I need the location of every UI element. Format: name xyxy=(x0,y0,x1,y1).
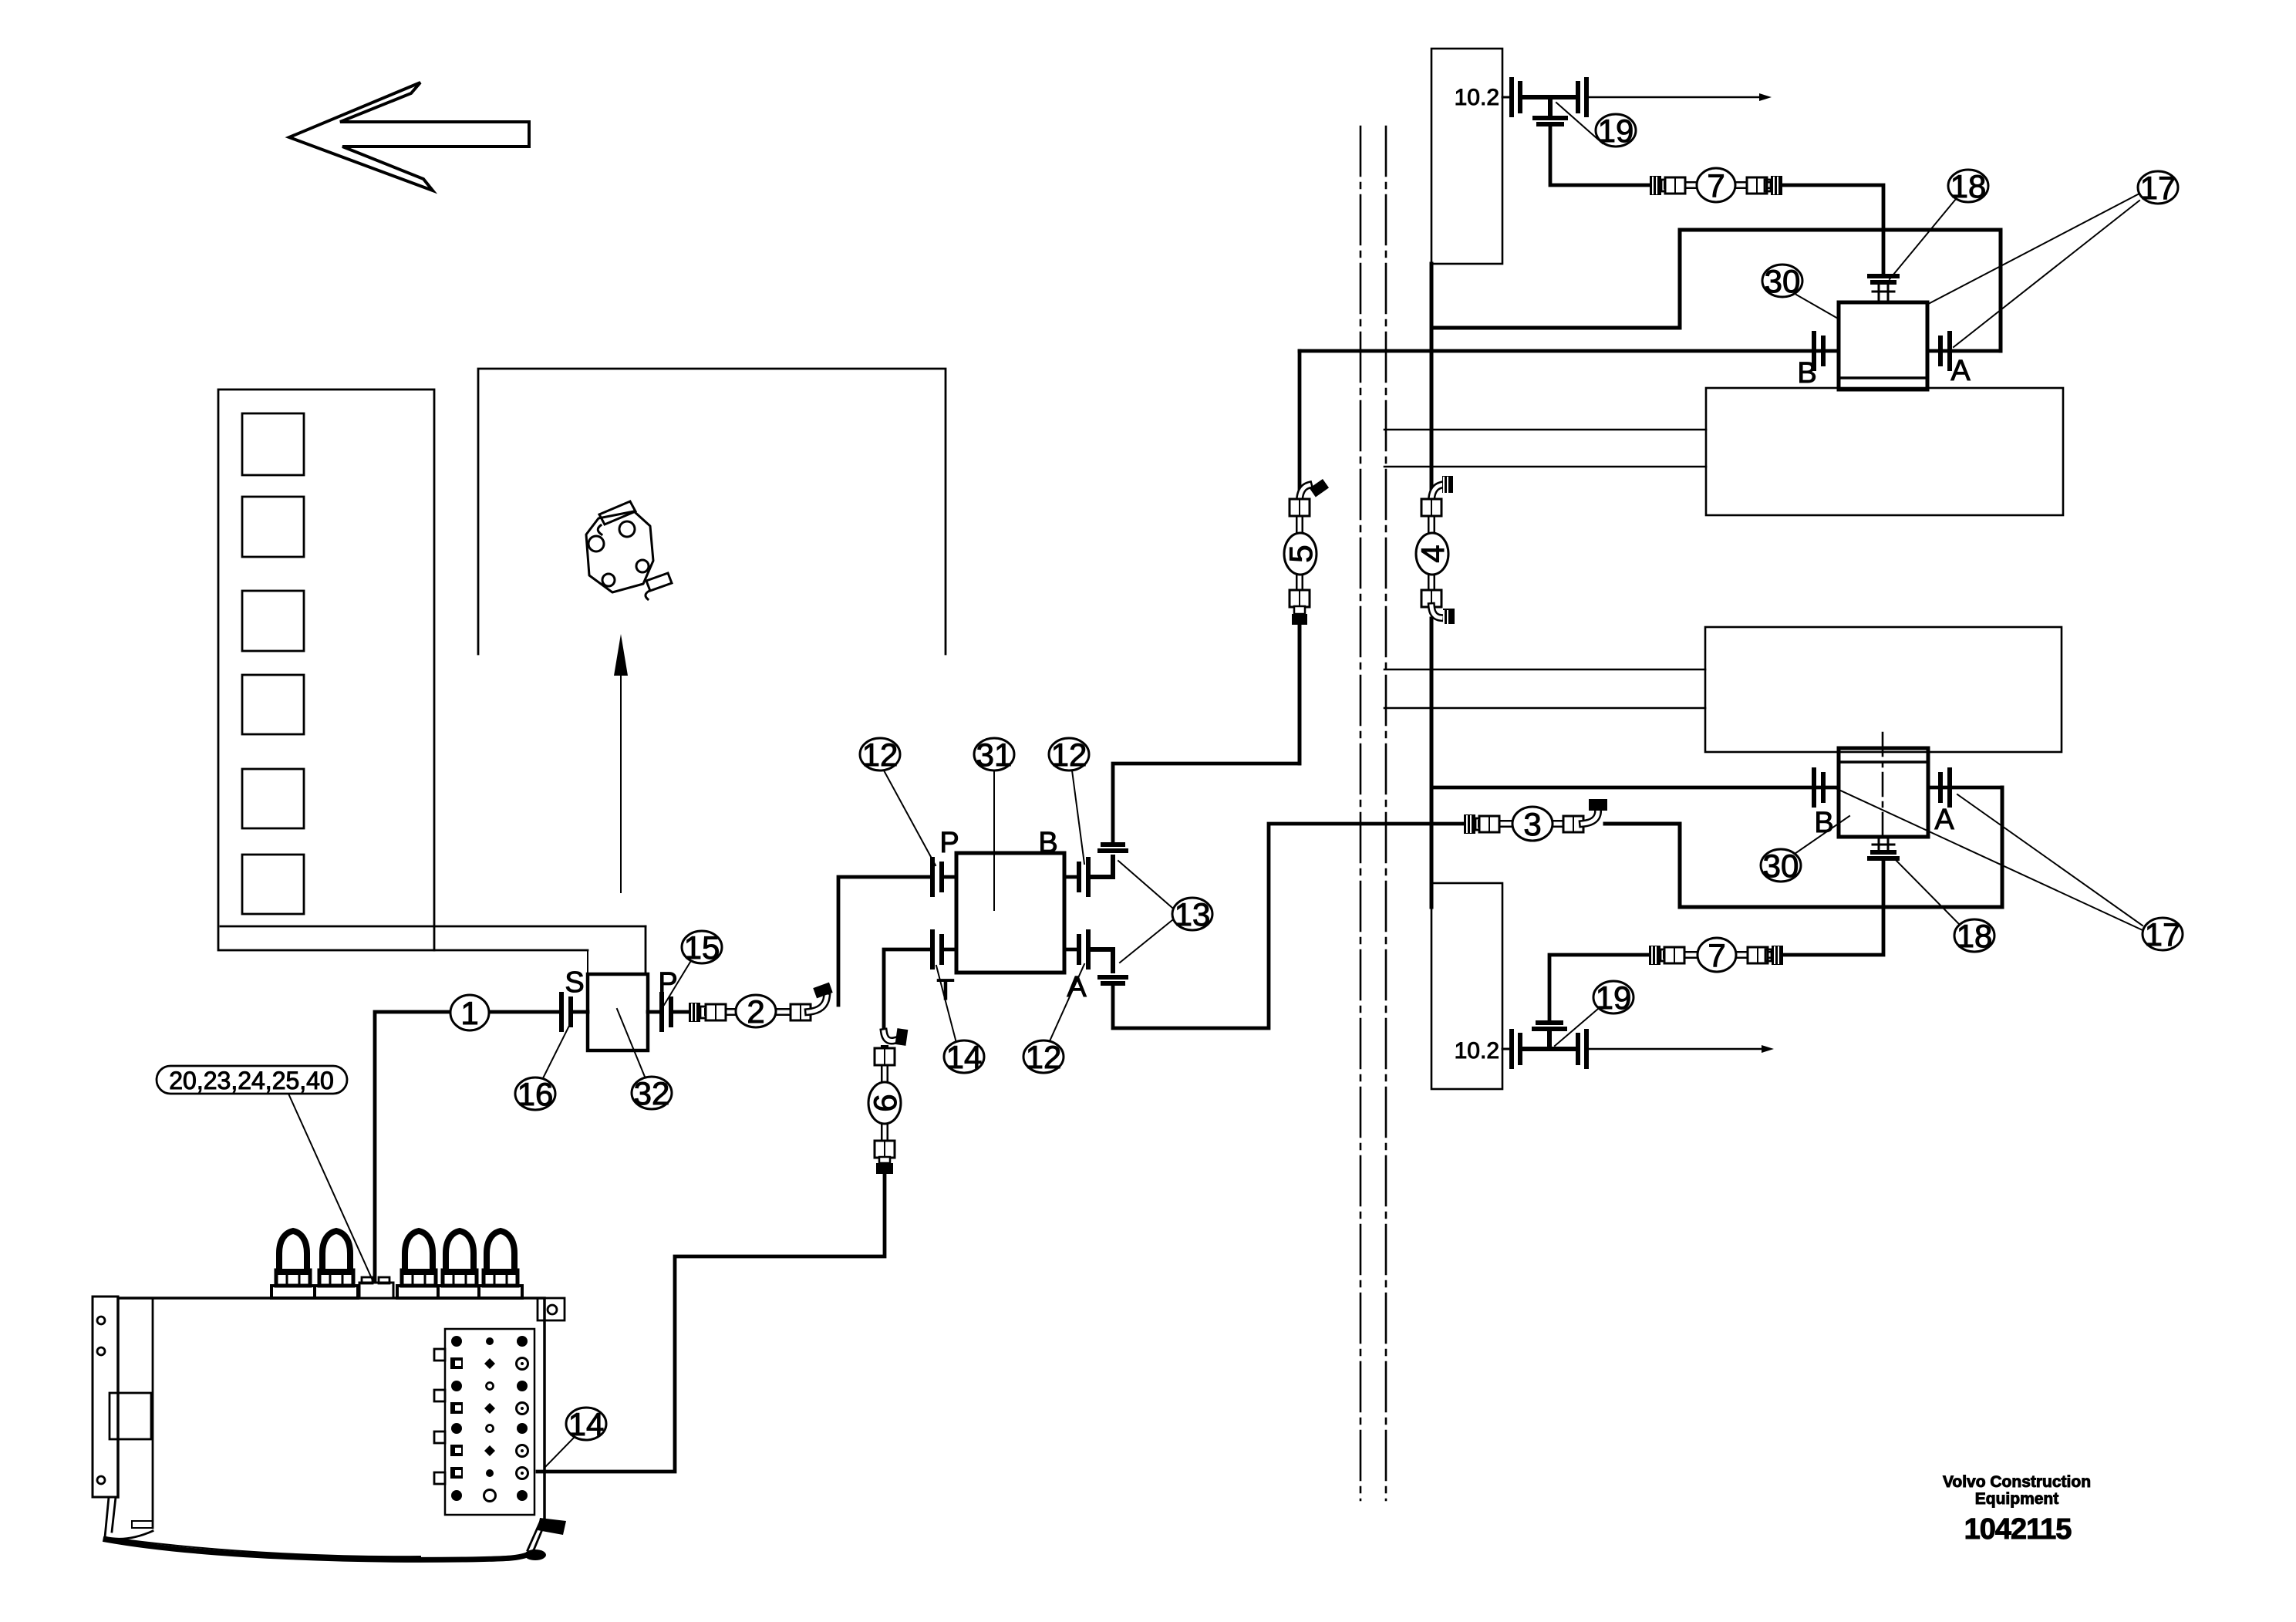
svg-text:20,23,24,25,40: 20,23,24,25,40 xyxy=(169,1067,334,1094)
svg-text:18: 18 xyxy=(1950,168,1987,204)
svg-text:16: 16 xyxy=(518,1076,554,1112)
hose 7 (lower) xyxy=(1649,946,1783,965)
tank right top bracket xyxy=(538,1298,565,1320)
svg-text:31: 31 xyxy=(976,737,1013,773)
port A flange (upper valve) xyxy=(1927,333,2001,369)
svg-text:19: 19 xyxy=(1596,980,1632,1016)
breather cap 3 xyxy=(397,1231,440,1298)
wire valve31 A to hose3 xyxy=(1113,824,1464,1028)
svg-text:14: 14 xyxy=(946,1039,983,1075)
svg-text:4: 4 xyxy=(1414,545,1451,562)
svg-text:32: 32 xyxy=(634,1075,670,1111)
callout 7 (upper) xyxy=(1697,167,1735,204)
wire hose7 to valve bottom (lower) xyxy=(1783,860,1883,955)
wire hose6 to tank plate xyxy=(538,1174,885,1472)
valve block U31 xyxy=(956,853,1064,973)
port B label (lower valve) xyxy=(1814,807,1833,839)
axle line (upper) xyxy=(1586,93,1772,101)
port A label (upper valve) xyxy=(1950,355,1971,387)
pump top view symbol xyxy=(586,501,672,599)
wire hose2 to valve P xyxy=(838,877,932,1005)
machine outline lower ledge lines xyxy=(221,926,646,974)
svg-text:1042115: 1042115 xyxy=(1964,1513,2072,1546)
wire valve31 T down xyxy=(884,949,932,1034)
wire tee to hose7 (upper) xyxy=(1550,126,1650,185)
svg-text:7: 7 xyxy=(1708,937,1725,973)
wire hose7 to valve top (upper) xyxy=(1782,185,1883,275)
callout 14 (tank) xyxy=(544,1406,606,1468)
hose 3 xyxy=(1464,799,1607,834)
title block text xyxy=(1943,1473,2091,1546)
wire B line (lower valve) xyxy=(1431,786,1839,790)
wire valve31 B to hose5 leg xyxy=(1113,622,1300,845)
callout 32 xyxy=(617,1009,672,1111)
svg-text:5: 5 xyxy=(1283,545,1319,562)
port T label (valve31) xyxy=(936,974,954,1007)
callout 12 (B) xyxy=(1049,737,1089,864)
tank connector plate xyxy=(434,1329,534,1515)
callout 15 xyxy=(664,929,722,1005)
node 10.2 box (upper) xyxy=(1431,49,1502,264)
callout 31 xyxy=(974,737,1014,910)
callout 1 xyxy=(450,995,489,1031)
valve bottom fitting (lower) xyxy=(1870,837,1897,858)
callout 12 (A) xyxy=(1023,964,1084,1075)
port S label xyxy=(565,966,584,999)
port P label (filter) xyxy=(658,967,677,1000)
callout 12 (P) xyxy=(860,737,936,865)
axle housing box (upper) xyxy=(1706,388,2063,515)
hose 7 (upper) xyxy=(1650,176,1782,195)
callout 17 (lower) xyxy=(1836,788,2183,953)
direction arrow xyxy=(289,83,529,191)
wire riser leg xyxy=(1430,264,1434,907)
svg-text:B: B xyxy=(1038,827,1057,859)
tank body xyxy=(105,1298,566,1560)
callout 14 (T) xyxy=(936,966,984,1075)
port B fitting + elbow up (valve31) xyxy=(1064,845,1126,895)
centre line right xyxy=(1385,126,1387,1500)
axle line (lower) xyxy=(1586,1045,1774,1053)
machine outline left panel xyxy=(218,389,434,950)
port A label (lower valve) xyxy=(1934,804,1954,836)
callout 7 (lower) xyxy=(1698,937,1736,973)
axle lines (upper pair) xyxy=(1384,430,1706,467)
svg-text:S: S xyxy=(565,966,584,999)
tank left bracket xyxy=(93,1297,118,1497)
tank top plate xyxy=(359,1277,393,1298)
svg-text:Equipment: Equipment xyxy=(1975,1490,2059,1508)
callout 13 xyxy=(1118,861,1212,963)
node 10.2 box (lower) xyxy=(1431,883,1502,1089)
axle housing box (lower) xyxy=(1705,627,2062,752)
svg-text:30: 30 xyxy=(1763,848,1799,884)
callout 5 xyxy=(1283,533,1319,575)
callout 18 (upper) xyxy=(1890,168,1988,279)
wire tee to hose7 (lower) xyxy=(1549,955,1649,1021)
valve top fitting (upper) xyxy=(1870,276,1897,302)
svg-text:18: 18 xyxy=(1957,918,1993,954)
port B flange (upper valve) xyxy=(1814,333,1823,369)
svg-text:1: 1 xyxy=(460,995,478,1031)
svg-text:A: A xyxy=(1950,355,1971,387)
wire A path (upper valve) xyxy=(1431,230,2001,351)
svg-text:17: 17 xyxy=(2145,916,2181,953)
svg-text:14: 14 xyxy=(568,1406,605,1442)
svg-text:15: 15 xyxy=(684,929,720,966)
callout 30 (lower) xyxy=(1761,816,1849,884)
breather cap 5 xyxy=(479,1231,522,1298)
steering valve 30 (lower) xyxy=(1839,748,1928,837)
callout 16 xyxy=(515,1026,569,1112)
port P flange (valve31) xyxy=(932,859,956,895)
port A flange (lower valve) xyxy=(1928,770,2002,805)
svg-text:19: 19 xyxy=(1598,113,1634,149)
svg-text:2: 2 xyxy=(747,993,764,1030)
breather cap 1 xyxy=(271,1231,315,1298)
filter unit U32 xyxy=(588,974,648,1050)
port B flange (lower valve) xyxy=(1814,770,1823,805)
centre line left xyxy=(1360,126,1362,1500)
svg-text:30: 30 xyxy=(1765,263,1801,299)
svg-text:12: 12 xyxy=(1051,737,1087,773)
valve centre line (lower) xyxy=(1882,733,1884,842)
svg-text:6: 6 xyxy=(867,1094,903,1111)
callout 20,23,24,25,40 xyxy=(157,1066,373,1282)
svg-text:A: A xyxy=(1067,971,1087,1003)
port A fitting + elbow down (valve31) xyxy=(1064,932,1126,983)
hose 5 xyxy=(1290,479,1329,625)
svg-text:3: 3 xyxy=(1523,806,1541,842)
tee fitting 19 (upper) xyxy=(1502,79,1586,124)
wire A path (lower valve) xyxy=(1605,787,2002,907)
port P flange (filter) xyxy=(648,994,689,1030)
port B label (upper valve) xyxy=(1797,357,1816,389)
direction arrow (thin, up) xyxy=(614,634,628,892)
breather cap 4 xyxy=(438,1231,481,1298)
callout 30 (upper) xyxy=(1762,263,1854,328)
callout 2 xyxy=(736,993,776,1030)
callout 18 (lower) xyxy=(1893,858,1994,954)
port B label (valve31) xyxy=(1038,827,1057,859)
hose 5 leg xyxy=(1298,351,1302,764)
port A label (valve31) xyxy=(1067,971,1087,1003)
wire 1 (suction line) xyxy=(375,1012,561,1283)
svg-text:7: 7 xyxy=(1707,167,1725,204)
svg-text:17: 17 xyxy=(2140,170,2176,206)
hose 2 xyxy=(689,983,833,1022)
svg-text:12: 12 xyxy=(862,737,899,773)
hose 6 xyxy=(875,1028,908,1174)
callout 3 xyxy=(1512,806,1553,842)
machine outline upper frame xyxy=(478,369,946,654)
port P label (valve31) xyxy=(939,827,959,859)
port T flange (valve31) xyxy=(932,932,956,967)
callout 6 xyxy=(867,1082,903,1124)
tee fitting 19 (lower) xyxy=(1502,1023,1586,1067)
svg-text:A: A xyxy=(1934,804,1954,836)
hose 4 xyxy=(1421,476,1455,626)
callout 19 (lower) xyxy=(1555,980,1633,1046)
connector plate fittings grid xyxy=(450,1336,528,1502)
callout 4 xyxy=(1414,533,1451,575)
svg-text:P: P xyxy=(939,827,959,859)
svg-text:10.2: 10.2 xyxy=(1455,1038,1499,1064)
svg-text:13: 13 xyxy=(1175,896,1211,932)
callout 17 (upper) xyxy=(1899,170,2178,347)
steering valve 30 (upper) xyxy=(1839,302,1927,389)
svg-text:10.2: 10.2 xyxy=(1455,85,1499,110)
port S flange xyxy=(561,994,588,1030)
svg-text:12: 12 xyxy=(1026,1039,1062,1075)
axle lines (lower pair) xyxy=(1384,669,1705,708)
wire B line (upper valve) xyxy=(1300,349,1839,353)
breather cap 2 xyxy=(315,1231,358,1298)
callout 19 (upper) xyxy=(1556,103,1636,149)
svg-text:Volvo Construction: Volvo Construction xyxy=(1943,1473,2091,1491)
